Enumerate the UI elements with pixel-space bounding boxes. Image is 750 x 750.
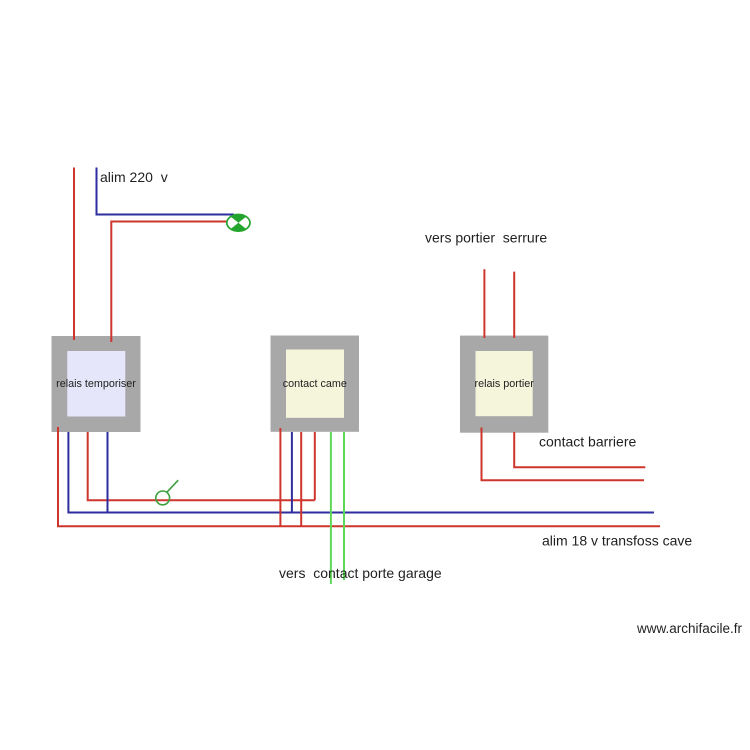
wire red serrure 2 into U3 top [513,272,515,338]
wire red bottom bus alim 18v [58,427,660,526]
wire blue alim 220v to lamp [97,168,235,215]
wire green U2 pin 6 porte garage [343,432,345,580]
svg-text:contact barriere: contact barriere [539,434,636,450]
svg-text:relais portier: relais portier [474,378,534,390]
lamp DEL green indicator [227,215,250,232]
wire red U2 pin 4 to switch line [314,432,316,500]
wire blue bus alim 18v [68,432,654,513]
wire red U3 pin to contact barriere upper [514,432,645,467]
wire red lamp to U1 top [111,222,227,343]
wire red switch line U1 to U2 [88,432,315,500]
svg-text:alim 220 v: alim 220 v [100,169,168,185]
wire red U2 pin 1 to red bus [279,428,281,526]
wire red U3 pin to contact barriere lower [482,428,645,481]
svg-text:relais temporiser: relais temporiser [56,378,136,390]
wire red alim 220v left vertical into U1 top [73,168,75,341]
contact came U2 box [271,336,360,432]
svg-text:vers portier serrure: vers portier serrure [425,230,547,246]
wire red U2 pin 3 to red bus [300,432,302,526]
switch S1 green [156,480,178,505]
wire green U2 pin 5 porte garage [330,432,332,584]
svg-text:contact came: contact came [283,378,347,390]
svg-text:vers contact porte garage: vers contact porte garage [279,565,442,581]
wire red serrure 1 into U3 top [483,269,485,338]
svg-text:www.archifacile.fr: www.archifacile.fr [636,621,743,636]
wire blue U2 pin 2 to blue bus [291,432,293,513]
svg-text:alim 18 v transfoss cave: alim 18 v transfoss cave [542,533,692,549]
relais temporiser U1 box [52,336,141,432]
relais portier U3 box [460,336,548,433]
wire blue U1 pin 4 to blue bus [107,432,109,513]
